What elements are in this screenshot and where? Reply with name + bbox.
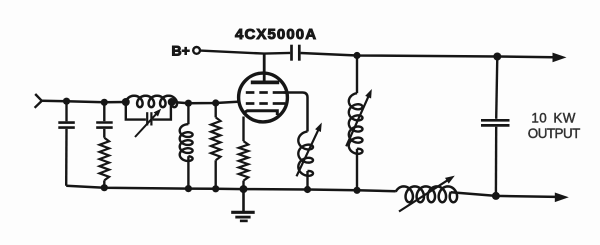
svg-text:OUTPUT: OUTPUT xyxy=(528,126,580,141)
svg-text:B+: B+ xyxy=(172,42,190,58)
svg-text:10 KW: 10 KW xyxy=(531,111,575,126)
svg-text:4CX5000A: 4CX5000A xyxy=(235,26,317,43)
